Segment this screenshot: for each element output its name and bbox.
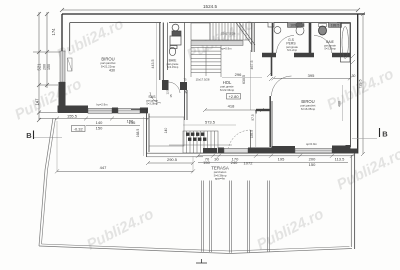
top inner wall [70, 23, 351, 148]
svg-text:443.5: 443.5 [151, 60, 155, 69]
door arcs bathrooms [277, 36, 295, 54]
svg-text:30: 30 [352, 74, 356, 78]
svg-text:188.5: 188.5 [331, 24, 340, 28]
BIROU right label [301, 99, 316, 111]
stair diagonal break line [239, 23, 255, 46]
svg-text:15x17.5/28: 15x17.5/28 [221, 32, 235, 36]
svg-text:75: 75 [184, 78, 187, 82]
svg-text:S=1.2mp: S=1.2mp [287, 49, 298, 52]
left dimension column [33, 12, 62, 122]
stair lower run treads [191, 45, 221, 77]
terrace bottom edge [39, 246, 352, 254]
right vertical dim 729.5 [362, 14, 364, 154]
-0.32 level box [72, 126, 86, 132]
radiator at left window [68, 58, 73, 71]
building outer walls [62, 14, 365, 154]
BIROU left room label [101, 57, 116, 73]
south facade wall piece + window 2 [112, 108, 118, 114]
SAS room [146, 95, 158, 106]
svg-text:hp=2.9m: hp=2.9m [97, 103, 109, 107]
svg-text:150: 150 [96, 126, 103, 131]
BIROU right south wall w/ window [272, 146, 296, 154]
bottom center mark [196, 262, 207, 264]
svg-text:240: 240 [231, 160, 238, 165]
svg-text:30: 30 [214, 157, 219, 162]
stair guard band [191, 41, 243, 46]
terrace north edge [147, 152, 358, 154]
svg-text:150: 150 [47, 64, 51, 70]
svg-text:120: 120 [166, 89, 170, 94]
top dimension 1524.5 [60, 8, 360, 12]
svg-text:+2.80: +2.80 [228, 94, 239, 99]
vertical dim 443.5 [156, 23, 158, 105]
395 dim in BIROU right [274, 77, 351, 79]
svg-text:S=4.15mp: S=4.15mp [167, 66, 179, 69]
terrace pavement joints [202, 181, 270, 253]
porch/stair intermediate line [169, 144, 232, 146]
svg-text:290.5: 290.5 [167, 157, 178, 162]
svg-text:S=22.34mp: S=22.34mp [220, 88, 235, 92]
svg-text:SAS: SAS [148, 95, 156, 99]
terrace right edge [350, 155, 352, 247]
svg-text:156: 156 [127, 119, 134, 124]
svg-text:S=3.28mp: S=3.28mp [146, 103, 158, 106]
svg-text:B: B [382, 130, 388, 139]
svg-text:1524.5: 1524.5 [203, 4, 217, 9]
window top wall 2 [329, 23, 342, 28]
svg-text:418: 418 [228, 104, 235, 109]
svg-text:150: 150 [203, 160, 210, 165]
left outer wall upper [61, 14, 63, 51]
vertical dim lines in HOL [250, 50, 252, 110]
BIROU right wall [160, 23, 164, 81]
svg-text:467.5: 467.5 [250, 61, 254, 70]
HOL east wall / step contour [256, 96, 272, 147]
svg-text:1072: 1072 [244, 161, 254, 166]
notch in top wall [268, 23, 274, 28]
door arc HOL to BIROU right [272, 76, 292, 96]
svg-text:400: 400 [338, 101, 342, 107]
svg-text:apa=4m: apa=4m [215, 176, 226, 180]
SAS porch walls [147, 90, 188, 157]
junction ticks [267, 73, 271, 77]
window top wall 1 [288, 23, 302, 28]
main stair upper run treads [191, 23, 210, 40]
svg-text:296: 296 [235, 72, 242, 77]
HOL labels [220, 80, 235, 92]
BAIE left room [168, 23, 185, 91]
right outer wall [357, 14, 359, 154]
svg-text:15x17.5/28: 15x17.5/28 [196, 78, 210, 82]
svg-text:200: 200 [43, 64, 47, 70]
svg-text:729.5: 729.5 [359, 80, 363, 89]
svg-text:447: 447 [100, 165, 107, 170]
G.S PERS / BAIE partition walls [262, 23, 351, 55]
HOL south wall with window [218, 148, 224, 154]
svg-text:430: 430 [109, 69, 115, 73]
svg-text:Publi24.ro: Publi24.ro [324, 65, 396, 113]
svg-text:Publi24.ro: Publi24.ro [84, 205, 156, 253]
svg-text:S=16.35mp: S=16.35mp [301, 107, 316, 111]
svg-text:195: 195 [278, 157, 285, 162]
terrace left slanted edge [39, 118, 53, 246]
south facade: window 1 [88, 108, 112, 113]
svg-text:150: 150 [309, 162, 316, 167]
terrace door arc from HOL [228, 130, 251, 153]
G.S PERS fixtures + label [274, 27, 281, 34]
svg-text:140: 140 [164, 128, 168, 134]
svg-text:S=3.26mp: S=3.26mp [324, 48, 336, 51]
svg-text:97.5: 97.5 [251, 114, 255, 120]
svg-text:PERS: PERS [286, 42, 296, 46]
svg-text:B: B [26, 131, 32, 140]
lower-left wall corner filled [59, 82, 66, 106]
svg-text:200: 200 [309, 157, 316, 162]
svg-text:140: 140 [96, 120, 103, 125]
BAIE right fixtures + label [319, 26, 327, 35]
svg-text:hp=0.9m: hp=0.9m [221, 47, 233, 51]
svg-text:174: 174 [51, 28, 56, 36]
dims under south windows [39, 117, 150, 126]
svg-text:BAIE: BAIE [326, 40, 334, 44]
stair right wall [251, 23, 253, 52]
svg-text:168.5: 168.5 [136, 129, 140, 138]
exterior stair to terrace [183, 131, 218, 153]
svg-text:sp=0.9m: sp=0.9m [306, 142, 317, 146]
svg-text:147: 147 [35, 98, 40, 106]
svg-text:Publi24.ro: Publi24.ro [254, 205, 326, 253]
left wall window [60, 51, 65, 82]
svg-text:155.5: 155.5 [67, 114, 78, 119]
SAS partitions dark [162, 80, 169, 90]
svg-text:630.5: 630.5 [242, 75, 246, 84]
svg-text:15: 15 [169, 94, 173, 98]
svg-text:113.5: 113.5 [335, 157, 345, 162]
svg-text:155.5: 155.5 [250, 130, 254, 138]
svg-text:521: 521 [37, 63, 42, 71]
svg-text:395: 395 [308, 73, 315, 78]
svg-text:573.5: 573.5 [205, 120, 216, 125]
svg-text:-0.32: -0.32 [74, 126, 84, 131]
bottom dim rows [198, 155, 355, 157]
top outer wall [62, 13, 365, 15]
TERASA label [211, 166, 229, 181]
